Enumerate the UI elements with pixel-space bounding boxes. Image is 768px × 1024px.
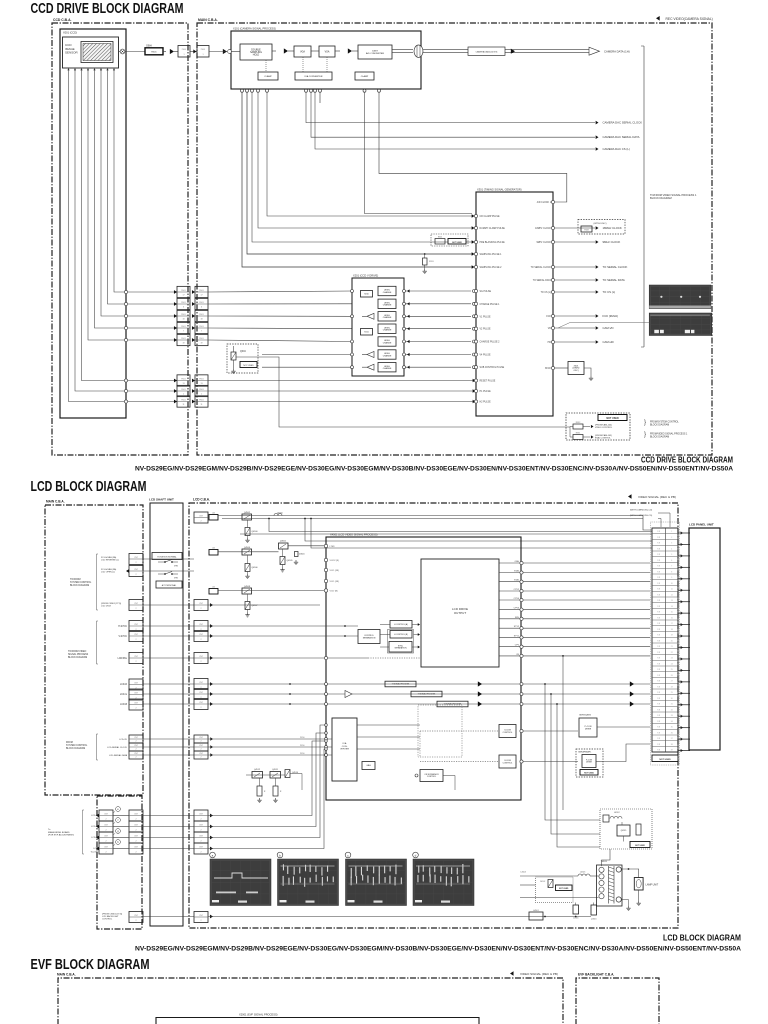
- svg-text:Q4500: Q4500: [252, 531, 259, 533]
- svg-text:CN7: CN7: [104, 846, 108, 848]
- X4501 left pins: [324, 544, 339, 592]
- svg-text:VERTER: VERTER: [340, 749, 349, 751]
- svg-text:Q4507: Q4507: [252, 605, 259, 607]
- svg-text:TO SERIAL DATA: TO SERIAL DATA: [603, 278, 625, 282]
- svg-text:TO/FROM VIDEO: TO/FROM VIDEO: [68, 651, 87, 653]
- svg-text:CCD C.B.A.: CCD C.B.A.: [53, 18, 72, 22]
- svg-text:DUMMY CLAMP PULSE: DUMMY CLAMP PULSE: [480, 227, 506, 230]
- svg-text:36: 36: [671, 732, 673, 734]
- svg-text:(WITH DISC): (WITH DISC): [594, 223, 607, 225]
- svg-text:19: 19: [182, 342, 184, 344]
- svg-text:CN7: CN7: [134, 753, 138, 755]
- svg-text:Q4502: Q4502: [244, 512, 251, 514]
- svg-text:R332: R332: [576, 422, 581, 424]
- svg-text:30: 30: [671, 698, 673, 700]
- svg-text:23: 23: [671, 658, 673, 660]
- svg-text:CN7: CN7: [134, 702, 138, 704]
- svg-text:MAIN C.B.A.: MAIN C.B.A.: [198, 18, 218, 22]
- svg-text:P601: P601: [181, 326, 185, 328]
- svg-text:STA2: STA2: [514, 570, 520, 573]
- signal VIDEO arrow (EVF): [510, 971, 514, 975]
- svg-text:TO SERIAL DATA: TO SERIAL DATA: [533, 279, 552, 282]
- svg-text:17: 17: [671, 623, 673, 625]
- IC X201 CCD V DRIVE: [352, 278, 404, 376]
- brace to system control: [97, 554, 99, 610]
- svg-text:L4512: L4512: [614, 812, 620, 814]
- svg-text:P601: P601: [199, 314, 203, 316]
- svg-text:EVF BLOCK DIAGRAM: EVF BLOCK DIAGRAM: [31, 957, 150, 973]
- svg-text:CN7: CN7: [199, 634, 203, 636]
- svg-text:Q4508: Q4508: [244, 586, 251, 588]
- pin circles on X001: [124, 290, 127, 403]
- svg-text:OUTPUT: OUTPUT: [454, 611, 467, 615]
- svg-text:NV-DS29EG/NV-DS29EGM/NV-DS29B/: NV-DS29EG/NV-DS29EGM/NV-DS29B/NV-DS29EGE…: [135, 946, 742, 952]
- svg-text:H4501: H4501: [533, 910, 539, 912]
- svg-text:P601: P601: [181, 302, 185, 304]
- svg-text:CONTROL: CONTROL: [102, 919, 113, 921]
- resistor block R-G-B: [362, 762, 375, 770]
- signal VIDEO arrow (LCD): [628, 494, 632, 498]
- svg-text:H1 PULSE: H1 PULSE: [480, 391, 492, 393]
- svg-text:CCD DRIVE BLOCK DIAGRAM: CCD DRIVE BLOCK DIAGRAM: [641, 456, 733, 465]
- svg-text:TO CS (L): TO CS (L): [603, 290, 616, 294]
- connector sensor signal crossing boards: [178, 46, 190, 58]
- timing generator right pins: [531, 200, 555, 370]
- svg-text:21: 21: [671, 646, 673, 648]
- svg-text:2: 2: [105, 830, 106, 832]
- svg-text:10: 10: [671, 583, 673, 585]
- svg-text:VD: VD: [548, 328, 552, 330]
- svg-text:LCD REVERSE (L): LCD REVERSE (L): [101, 560, 119, 562]
- connector measuring rows: [48, 807, 143, 854]
- svg-text:CN7: CN7: [134, 835, 138, 837]
- blocks h-control sync separation: [390, 621, 412, 629]
- svg-text:14: 14: [671, 606, 673, 608]
- svg-text:CN7: CN7: [199, 656, 203, 658]
- svg-text:CN7: CN7: [134, 569, 138, 571]
- svg-text:R203: R203: [429, 261, 434, 263]
- svg-text:CN7: CN7: [199, 835, 203, 837]
- svg-text:(FROM/CAM-105): (FROM/CAM-105): [595, 434, 612, 437]
- svg-text:18: 18: [200, 318, 202, 320]
- svg-text:CN7: CN7: [134, 634, 138, 636]
- IC X001 board (CCD): [60, 29, 126, 418]
- wires connector to timing generator (RESET,H1,H2): [208, 379, 476, 404]
- svg-text:CN7: CN7: [134, 682, 138, 684]
- svg-text:CHANGE: CHANGE: [383, 354, 392, 357]
- svg-text:SYSTEM CONTROL: SYSTEM CONTROL: [66, 745, 88, 747]
- sensor drive lines (V1-V4,H1,H2,RG,SUB): [67, 68, 125, 402]
- svg-text:ZC-IG/GBH (3A): ZC-IG/GBH (3A): [101, 556, 117, 559]
- svg-text:P601: P601: [199, 302, 203, 304]
- svg-text:CPV: CPV: [515, 645, 520, 647]
- svg-text:BLOCK DIAGRAM: BLOCK DIAGRAM: [68, 656, 87, 659]
- svg-text:V1 PULSE: V1 PULSE: [480, 316, 491, 318]
- svg-text:LCD OPEN (L): LCD OPEN (L): [101, 572, 115, 574]
- svg-text:CAM-HD: CAM-HD: [603, 340, 614, 344]
- svg-text:R211: R211: [364, 331, 368, 333]
- connector CN7 control rows: [101, 554, 143, 611]
- svg-text:VCO (9): VCO (9): [330, 591, 338, 593]
- svg-text:CONTROL: CONTROL: [427, 776, 436, 778]
- svg-text:CPV3: CPV3: [514, 608, 520, 610]
- svg-text:Q4501: Q4501: [280, 541, 287, 543]
- svg-text:CN7: CN7: [134, 624, 138, 626]
- svg-text:LCD-R: LCD-R: [120, 684, 127, 686]
- svg-text:CN7: CN7: [134, 824, 138, 826]
- svg-text:9MHz CLOCK: 9MHz CLOCK: [536, 242, 551, 244]
- svg-text:L4505: L4505: [580, 872, 585, 874]
- svg-text:P601: P601: [199, 326, 203, 328]
- svg-text:CN7: CN7: [199, 737, 203, 739]
- svg-text:2: 2: [200, 749, 201, 751]
- RGB signal wires: [208, 681, 650, 707]
- svg-text:V-SYNC: V-SYNC: [118, 636, 127, 638]
- svg-text:C4516: C4516: [573, 918, 579, 920]
- block clamp 2: [355, 72, 374, 80]
- svg-text:6: 6: [671, 560, 672, 562]
- svg-text:CPV2: CPV2: [514, 589, 520, 591]
- svg-text:MEASURING BOARD: MEASURING BOARD: [48, 831, 70, 834]
- svg-text:13: 13: [671, 600, 673, 602]
- svg-text:2: 2: [105, 819, 106, 821]
- v-com control A: [420, 730, 499, 732]
- svg-text:SEPARATION: SEPARATION: [363, 636, 376, 639]
- svg-text:CN7: CN7: [199, 682, 203, 684]
- svg-text:D/A CONVERTER: D/A CONVERTER: [305, 75, 323, 78]
- svg-text:34: 34: [671, 721, 673, 723]
- svg-text:2: 2: [135, 920, 136, 922]
- buffer amp G row: [345, 691, 352, 698]
- svg-text:LCD-G: LCD-G: [120, 694, 127, 696]
- svg-text:LCD-SERIAL CLOCK: LCD-SERIAL CLOCK: [107, 746, 128, 749]
- svg-text:Q4515: Q4515: [621, 830, 626, 832]
- dotted control wires: [266, 51, 358, 72]
- svg-text:11: 11: [201, 404, 203, 406]
- svg-text:CONTROL: CONTROL: [503, 762, 514, 764]
- svg-text:2: 2: [671, 537, 672, 539]
- svg-text:6: 6: [183, 306, 184, 308]
- svg-text:2: 2: [135, 708, 136, 710]
- svg-text:2: 2: [105, 841, 106, 843]
- svg-text:CN7: CN7: [199, 915, 203, 917]
- svg-text:L45: L45: [212, 548, 215, 550]
- svg-text:16: 16: [671, 617, 673, 619]
- svg-text:CAMERA DAC SERIAL DATA: CAMERA DAC SERIAL DATA: [603, 135, 640, 139]
- svg-text:CCD DRIVE BLOCK DIAGRAM: CCD DRIVE BLOCK DIAGRAM: [31, 1, 184, 17]
- svg-text:2: 2: [200, 819, 201, 821]
- svg-text:PRE BLANKING PULSE: PRE BLANKING PULSE: [480, 241, 506, 244]
- svg-text:22: 22: [671, 652, 673, 654]
- svg-text:OSC): OSC): [574, 370, 579, 372]
- svg-text:2: 2: [135, 562, 136, 564]
- svg-text:2: 2: [200, 852, 201, 854]
- svg-text:NOT USED: NOT USED: [584, 773, 594, 775]
- resistor R203 pulldown: [424, 253, 426, 255]
- connector sync rows: [68, 621, 143, 665]
- svg-text:15: 15: [671, 612, 673, 614]
- waveform photos a-d: [210, 852, 474, 905]
- svg-text:CHANGE: CHANGE: [383, 367, 392, 370]
- svg-text:LAMP UNIT: LAMP UNIT: [646, 884, 659, 887]
- svg-text:LCD: LCD: [93, 848, 98, 850]
- svg-text:9: 9: [671, 577, 672, 579]
- svg-text:28: 28: [671, 686, 673, 688]
- svg-text:TO/FROM: TO/FROM: [70, 579, 81, 581]
- svg-text:2: 2: [200, 920, 201, 922]
- svg-text:24: 24: [671, 663, 673, 665]
- svg-text:2: 2: [135, 749, 136, 751]
- svg-text:P450: P450: [300, 753, 304, 755]
- svg-text:LCD BLOCK DIAGRAM: LCD BLOCK DIAGRAM: [663, 934, 741, 943]
- svg-text:SAMPLING PULSE 1: SAMPLING PULSE 1: [480, 253, 503, 256]
- svg-text:LCD/PAL: LCD/PAL: [118, 657, 128, 660]
- wires MAIN to LCD C.B.A.: [143, 559, 194, 917]
- svg-text:LCD-R: LCD-R: [91, 815, 98, 817]
- svg-text:DRIVE: DRIVE: [585, 728, 592, 730]
- arrow input: [223, 49, 227, 54]
- svg-text:LCD PANEL UNIT: LCD PANEL UNIT: [689, 523, 714, 527]
- resistor R302 not-used box: [431, 234, 468, 246]
- bias transistor network Q4500-Q4508: [209, 512, 305, 617]
- svg-text:P601: P601: [181, 314, 185, 316]
- svg-text:R302: R302: [438, 237, 442, 239]
- svg-text:2: 2: [135, 830, 136, 832]
- svg-text:LCD SHAFT UNIT: LCD SHAFT UNIT: [149, 498, 174, 502]
- signal REC VIDEO arrow: [656, 16, 660, 21]
- svg-text:VGA: VGA: [300, 50, 305, 53]
- backlight drive components: [208, 872, 599, 921]
- inverter circuit L4512: [600, 809, 652, 849]
- svg-text:H-SYNC: H-SYNC: [118, 626, 127, 628]
- svg-text:BLOCK DIAGRAM: BLOCK DIAGRAM: [650, 423, 669, 426]
- svg-text:2: 2: [200, 639, 201, 641]
- svg-text:GBH/APBBAP1: GBH/APBBAP1: [578, 751, 591, 754]
- with-disc option box: [578, 220, 625, 235]
- svg-text:LCD C.B.A.: LCD C.B.A.: [193, 498, 210, 502]
- svg-text:CN7: CN7: [134, 813, 138, 815]
- dotted option region: [418, 705, 462, 757]
- svg-text:D4501: D4501: [299, 554, 305, 556]
- svg-text:NOT USED: NOT USED: [243, 365, 254, 367]
- svg-text:GBH: GBH: [146, 44, 152, 48]
- svg-text:CN7: CN7: [134, 603, 138, 605]
- svg-text:V2 PULSE: V2 PULSE: [480, 329, 491, 331]
- not used pins: [652, 755, 678, 762]
- timing generator left pins: [474, 214, 505, 403]
- svg-text:2: 2: [200, 741, 201, 743]
- svg-text:BLOCK DIAGRAM: BLOCK DIAGRAM: [650, 435, 669, 438]
- connector serial rows: [66, 734, 143, 760]
- svg-text:SYSTEM CONTROL: SYSTEM CONTROL: [70, 582, 92, 584]
- svg-text:Q4516: Q4516: [591, 919, 597, 921]
- svg-text:H CONTROL (A): H CONTROL (A): [394, 623, 408, 626]
- svg-text:LCD DR-R: LCD DR-R: [101, 606, 111, 608]
- svg-text:V4 PULSE: V4 PULSE: [480, 355, 491, 357]
- transistor Q604 (not used): [227, 344, 258, 373]
- svg-text:CN7: CN7: [199, 624, 203, 626]
- svg-text:CN7: CN7: [104, 813, 108, 815]
- transistors Q4510-Q4512: [246, 769, 302, 803]
- wires connector to LCD panel: [678, 531, 690, 752]
- svg-text:CN7: CN7: [199, 702, 203, 704]
- svg-text:2: 2: [135, 574, 136, 576]
- svg-text:2: 2: [200, 830, 201, 832]
- svg-text:LCD-B: LCD-B: [91, 837, 98, 839]
- svg-text:X2001 (EVF SIGNAL PROCESS): X2001 (EVF SIGNAL PROCESS): [239, 1013, 278, 1017]
- svg-text:26: 26: [671, 675, 673, 677]
- svg-text:LT09: LT09: [330, 546, 336, 548]
- svg-text:VIDEO SIGNAL (REC & PB): VIDEO SIGNAL (REC & PB): [520, 972, 558, 976]
- svg-text:SBV: SBV: [515, 617, 520, 619]
- timing generator output wires: [555, 226, 628, 344]
- svg-text:2: 2: [135, 608, 136, 610]
- svg-text:XFCK: XFCK: [545, 368, 552, 370]
- svg-text:CHANGE: CHANGE: [383, 304, 392, 307]
- rotation detect switches: [152, 553, 182, 560]
- camera data bus output: [392, 49, 413, 51]
- svg-text:OBH: OBH: [514, 561, 519, 563]
- svg-text:R210: R210: [364, 293, 368, 295]
- svg-text:(WITH LUMINOUS-LCD): (WITH LUMINOUS-LCD): [630, 515, 653, 517]
- svg-text:CON-: CON-: [342, 746, 348, 748]
- svg-text:31: 31: [671, 704, 673, 706]
- connector backlight row: [129, 912, 143, 923]
- svg-text:Q4506: Q4506: [252, 567, 259, 569]
- svg-text:2: 2: [135, 841, 136, 843]
- wires to backlight inverter: [544, 655, 600, 847]
- svg-text:2: 2: [200, 757, 201, 759]
- block clamp 1: [258, 72, 278, 80]
- svg-text:NOT USED: NOT USED: [635, 845, 645, 847]
- svg-text:X201 (CCD V DRIVE): X201 (CCD V DRIVE): [353, 274, 378, 278]
- svg-text:TO SERIAL CLOCK: TO SERIAL CLOCK: [531, 266, 552, 269]
- svg-text:7: 7: [671, 566, 672, 568]
- svg-text:EVAL CONTROL: EVAL CONTROL: [595, 437, 612, 440]
- transformer T4503 and lamp: [597, 861, 659, 911]
- svg-text:}: }: [644, 432, 646, 438]
- svg-text:18: 18: [182, 318, 184, 320]
- svg-text:7: 7: [183, 330, 184, 332]
- svg-text:P601: P601: [181, 399, 185, 401]
- svg-text:NOT USED: NOT USED: [606, 417, 619, 420]
- svg-text:TO CS (L): TO CS (L): [541, 292, 552, 294]
- connector P601 (MAIN side): [195, 286, 208, 407]
- svg-text:H CONTROL (B): H CONTROL (B): [394, 634, 408, 636]
- svg-text:VIDEO SIGNAL (REC & PB): VIDEO SIGNAL (REC & PB): [638, 495, 676, 499]
- svg-text:P601: P601: [182, 49, 186, 51]
- svg-text:CN7: CN7: [199, 515, 203, 517]
- svg-text:BLOCK DIAGRAM: BLOCK DIAGRAM: [650, 196, 672, 200]
- svg-text:6: 6: [201, 306, 202, 308]
- svg-text:CLAMP: CLAMP: [264, 75, 272, 78]
- svg-text:BLOCK DIAGRAM: BLOCK DIAGRAM: [70, 584, 89, 587]
- svg-text:A/T PERSONAL: A/T PERSONAL: [162, 584, 177, 587]
- connector FRD23 columns: [194, 512, 213, 923]
- svg-text:FCK: FCK: [546, 316, 551, 318]
- svg-text:CN7: CN7: [134, 692, 138, 694]
- svg-text:CAM-VD: CAM-VD: [603, 326, 614, 330]
- svg-text:CN7: CN7: [199, 753, 203, 755]
- svg-text:CN7: CN7: [134, 656, 138, 658]
- svg-text:2: 2: [200, 841, 201, 843]
- svg-text:FROM/SYSTEM CONTROL: FROM/SYSTEM CONTROL: [650, 422, 679, 424]
- svg-text:8: 8: [671, 571, 672, 573]
- svg-text:LCD-CK: LCD-CK: [119, 739, 127, 741]
- wires top distribution: [208, 513, 652, 606]
- svg-text:REC VIDEO(CAMERA SIGNAL): REC VIDEO(CAMERA SIGNAL): [666, 17, 713, 21]
- svg-text:CPV4: CPV4: [514, 598, 520, 600]
- svg-text:19: 19: [200, 342, 202, 344]
- svg-text:2: 2: [200, 661, 201, 663]
- svg-text:CN7: CN7: [104, 835, 108, 837]
- svg-text:TO SERIAL CLOCK: TO SERIAL CLOCK: [603, 265, 628, 269]
- svg-text:NOT USED: NOT USED: [659, 759, 671, 761]
- svg-text:NOT USED: NOT USED: [452, 242, 462, 244]
- svg-text:EVF BACKLIGHT C.B.A.: EVF BACKLIGHT C.B.A.: [578, 973, 614, 977]
- svg-text:P601: P601: [199, 338, 203, 340]
- svg-text:2: 2: [200, 707, 201, 709]
- svg-text:MAIN C.B.A.: MAIN C.B.A.: [57, 973, 76, 977]
- svg-text:}: }: [644, 420, 646, 426]
- svg-text:P450: P450: [300, 745, 304, 747]
- svg-text:CAMERA DATA (1H): CAMERA DATA (1H): [604, 50, 630, 54]
- svg-text:2: 2: [135, 757, 136, 759]
- svg-text:2: 2: [135, 741, 136, 743]
- svg-text:P601: P601: [181, 389, 185, 391]
- svg-text:2: 2: [135, 852, 136, 854]
- svg-text:F008: F008: [584, 229, 588, 231]
- block on-screen control: [420, 770, 443, 782]
- connector P601 (CCD side): [177, 286, 190, 407]
- svg-text:29: 29: [671, 692, 673, 694]
- connector RGB rows: [120, 679, 143, 710]
- IC X301 timing signal generator: [476, 192, 553, 416]
- svg-text:LCD BACKLIGHT: LCD BACKLIGHT: [102, 915, 119, 918]
- svg-text:1: 1: [671, 531, 672, 533]
- svg-text:CN7: CN7: [134, 915, 138, 917]
- svg-text:18: 18: [671, 629, 673, 631]
- svg-text:25: 25: [671, 669, 673, 671]
- svg-text:LCD BLOCK DIAGRAM: LCD BLOCK DIAGRAM: [31, 479, 147, 495]
- svg-text:A/D CLOCK 1: A/D CLOCK 1: [537, 201, 552, 204]
- svg-text:MAIN C.B.A.: MAIN C.B.A.: [46, 500, 65, 504]
- IC X4501 LCD video signal process: [326, 537, 521, 800]
- svg-text:17: 17: [200, 294, 202, 296]
- svg-text:L4516: L4516: [277, 513, 283, 515]
- svg-text:17: 17: [182, 294, 184, 296]
- svg-text:LCD-B: LCD-B: [120, 704, 127, 706]
- svg-text:CN7: CN7: [134, 846, 138, 848]
- svg-text:4: 4: [671, 548, 672, 550]
- svg-text:L45: L45: [212, 587, 215, 589]
- svg-text:V/W: V/W: [174, 578, 178, 580]
- svg-text:CHANGE: CHANGE: [383, 341, 392, 344]
- svg-text:SENSOR: SENSOR: [65, 51, 79, 55]
- svg-text:CHANGE: CHANGE: [383, 291, 392, 294]
- svg-text:38: 38: [671, 744, 673, 746]
- v-com control B: [420, 761, 499, 763]
- svg-text:37: 37: [671, 738, 673, 740]
- svg-text:Y SIGNAL PROCESS: Y SIGNAL PROCESS: [418, 693, 436, 696]
- svg-text:CAMERA DATA (10 BIT): CAMERA DATA (10 BIT): [476, 51, 498, 54]
- serial wires to D/A: [208, 737, 332, 756]
- svg-text:P601: P601: [181, 290, 185, 292]
- svg-text:P601: P601: [199, 290, 203, 292]
- level change cells: [378, 286, 476, 372]
- svg-text:P601: P601: [181, 338, 185, 340]
- svg-text:1: 1: [201, 393, 202, 395]
